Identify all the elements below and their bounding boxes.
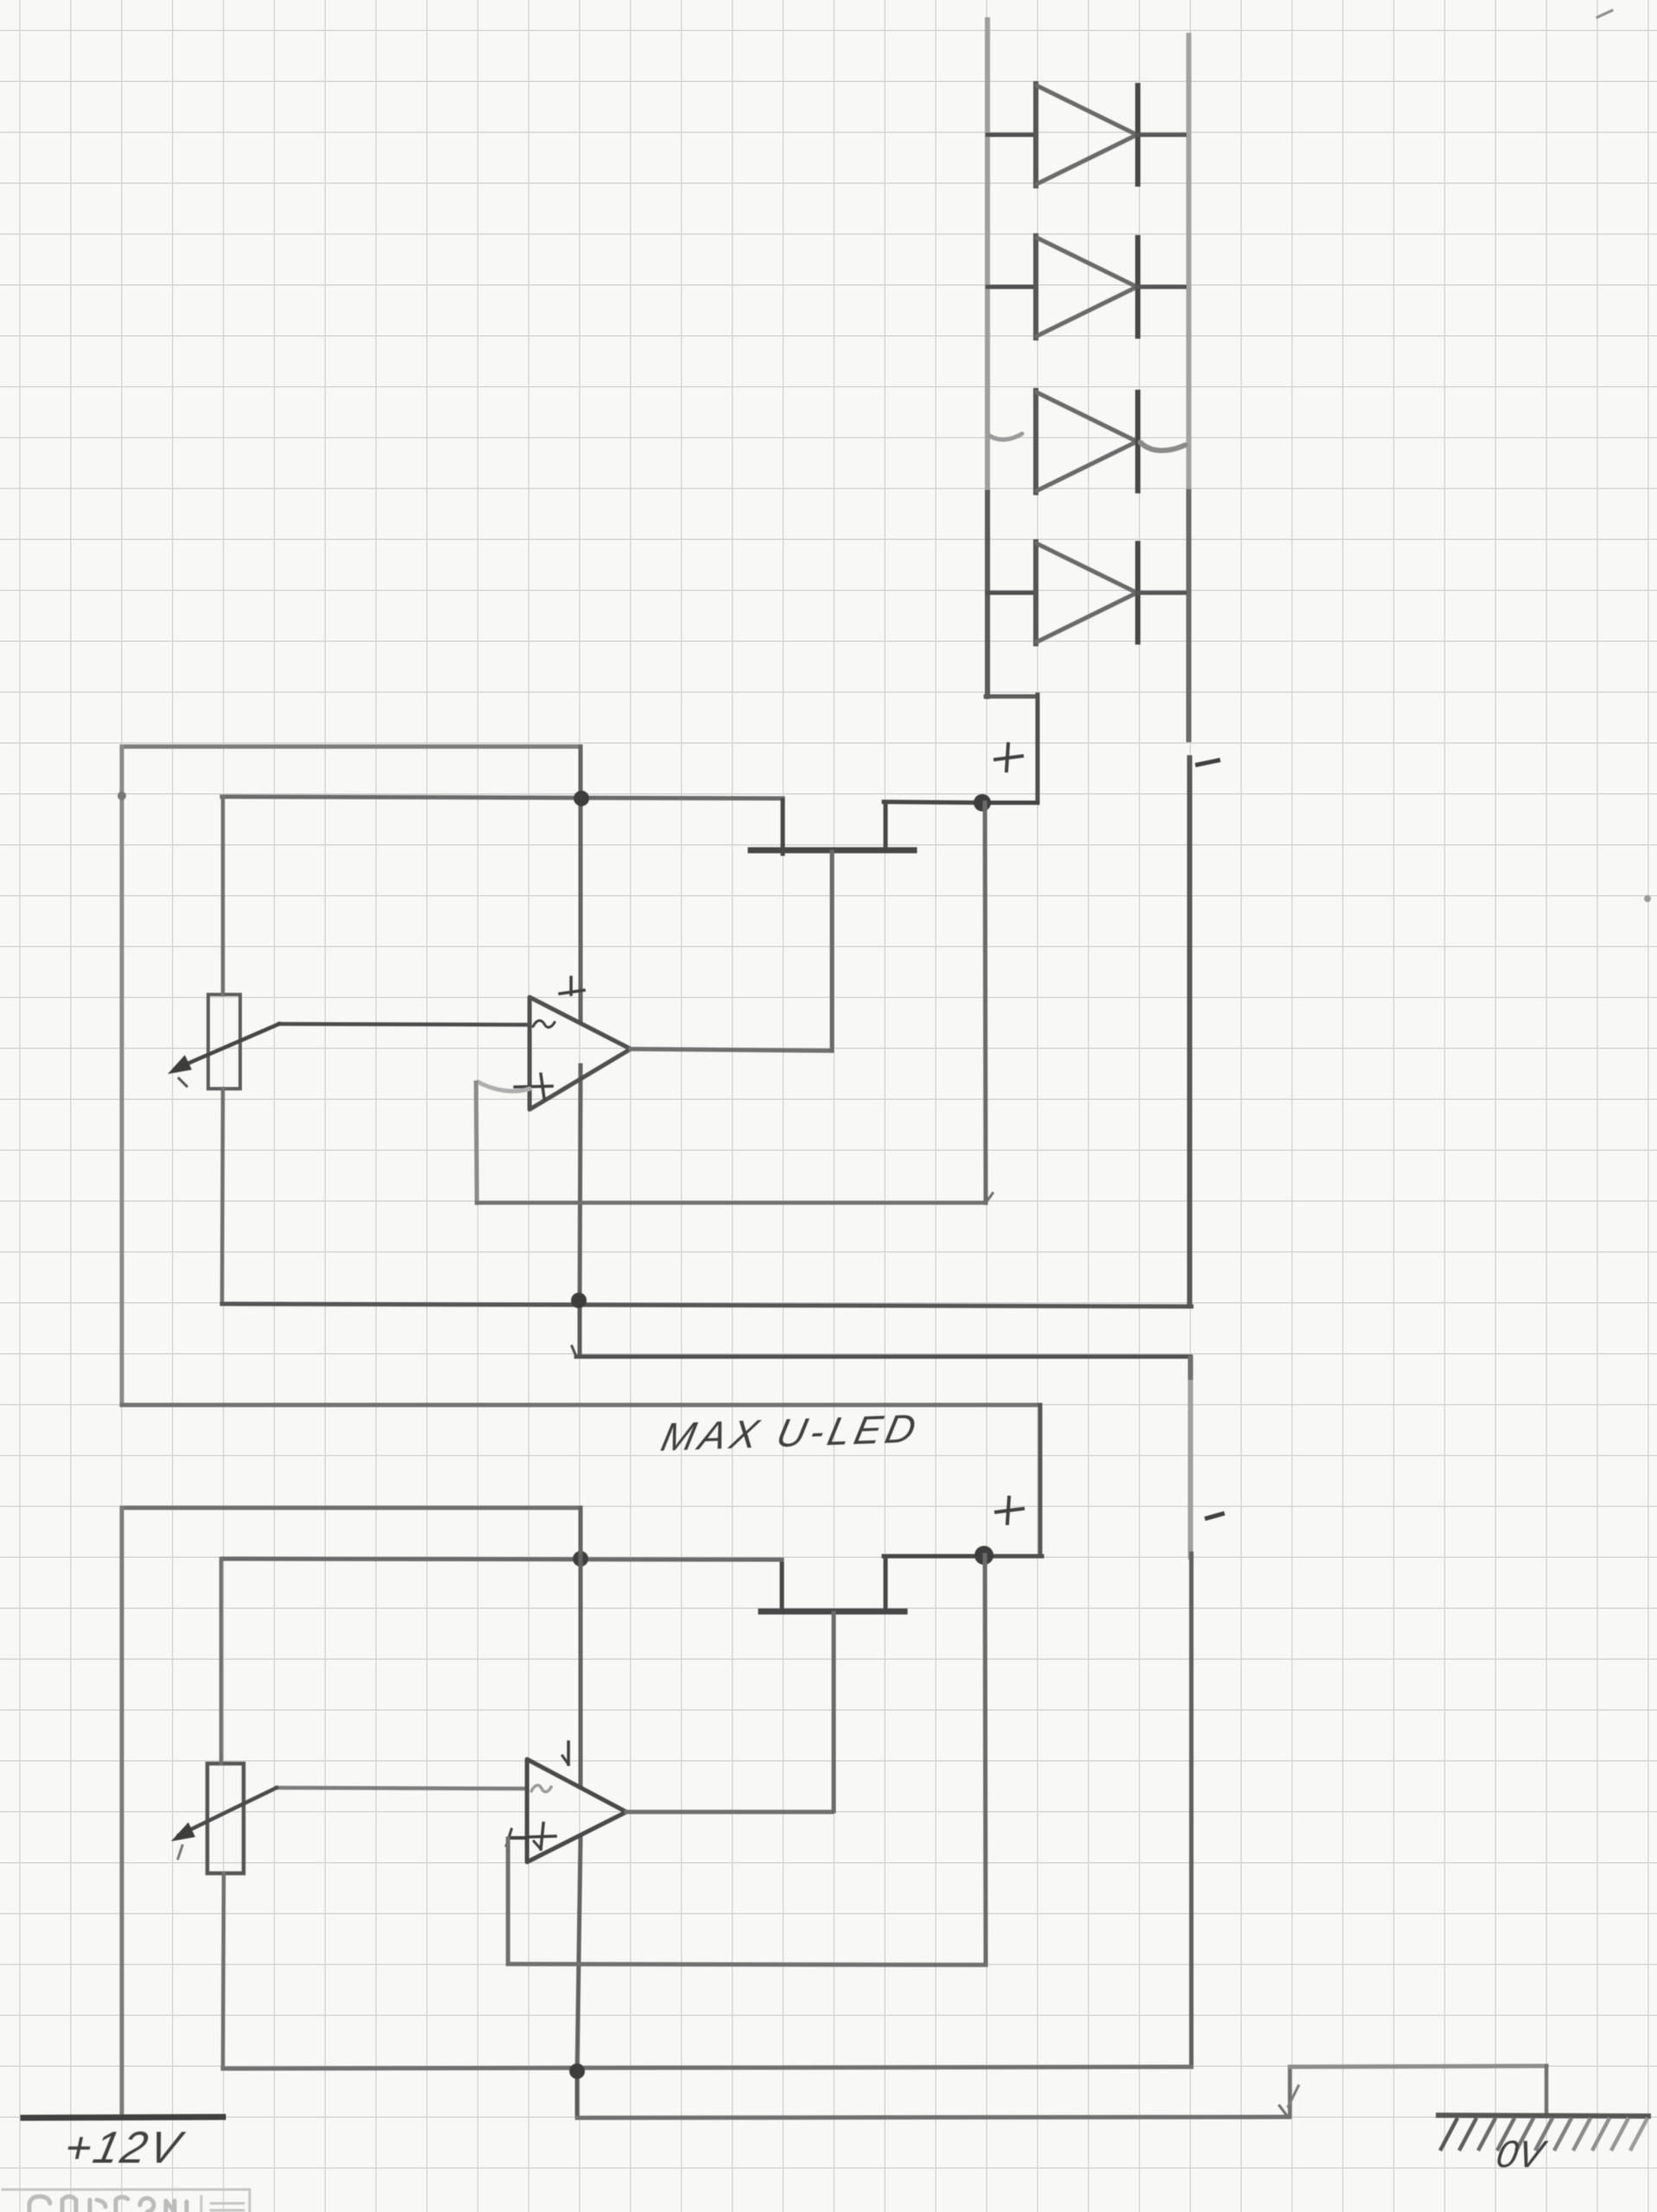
wire: upper +12V top rail <box>122 745 581 749</box>
node: lower bottom junction <box>569 2063 585 2079</box>
ground: step and 0V bar <box>1288 2066 1648 2149</box>
label: + (LED supply polarity) <box>995 744 1022 771</box>
transistor Q1 (MOSFET) <box>751 800 981 1051</box>
wire: LED anode rail (left, +) <box>985 20 1038 803</box>
wire: LED cathode rail (right, -) <box>1189 35 1190 1307</box>
wire: upper gate feed wire <box>222 797 783 798</box>
stamp (faint, cut off at page bottom) <box>3 2190 250 2212</box>
svg-text:+12V: +12V <box>60 2123 188 2173</box>
label: - (upper polarity mark) <box>1197 760 1218 765</box>
op-amp U2 <box>527 1742 626 1862</box>
node: lower supply junction <box>573 1551 588 1567</box>
svg-text:MAX U-LED: MAX U-LED <box>657 1406 924 1459</box>
label: - (lower polarity mark) <box>1207 1514 1222 1518</box>
op-amp U1 <box>515 977 631 1109</box>
wire: U2 non-inverting feedback <box>506 1829 986 1965</box>
wire: upper left supply rail <box>120 747 124 1405</box>
wire: Q1 drain sense line down <box>985 803 986 1203</box>
wire: upper lower rail (LED- return) <box>222 1304 1191 1306</box>
node: upper supply junction <box>574 791 589 806</box>
wire: upper bottom wire to lower LED+ connector <box>122 1403 1040 1408</box>
wire: Q2 drain sense line down <box>985 1555 986 1965</box>
wire: lower left supply rail <box>120 1508 124 2117</box>
wire: link to lower circuit return <box>572 1346 1190 1357</box>
diode D4 <box>987 542 1184 644</box>
node: small tick on left rail <box>117 791 126 800</box>
wire: lower bottom return wire <box>223 2067 1191 2069</box>
transistor Q2 (MOSFET) <box>761 1556 1042 1811</box>
wire: lower op-amp supply vertical <box>577 1508 581 2118</box>
wire: vertical to lower MOSFET drain node <box>1038 1405 1043 1556</box>
diode D1 <box>987 84 1184 186</box>
diode D2 <box>987 236 1184 338</box>
node: upper lower-rail junction <box>571 1293 587 1308</box>
diode D3 <box>989 391 1185 493</box>
node: Q1 drain / LED+ junction <box>974 794 991 811</box>
wire: lower gate feed wire <box>222 1559 782 1560</box>
wire: U1 output to MOSFET source <box>631 1049 830 1051</box>
wire: U2 output to MOSFET source <box>626 1810 832 1815</box>
wire: bottom wire to ground step <box>577 2106 1289 2118</box>
potentiometer R1 <box>208 797 240 1300</box>
stray speck (right edge) <box>1644 895 1651 902</box>
power: +12V supply bar <box>23 2117 223 2118</box>
stray pencil dash (top right corner) <box>1597 10 1612 17</box>
wire: R2 wiper to op-amp inverting input <box>171 1788 527 1859</box>
wire: U1 non-inverting feedback <box>476 1082 993 1203</box>
wire: R1 wiper to op-amp inverting input <box>168 1024 528 1086</box>
wire: lower return rail vertical <box>1190 1358 1191 2067</box>
wire: upper op-amp supply vertical <box>580 747 581 1357</box>
potentiometer R2 <box>207 1559 244 2069</box>
node: Q2 drain / lower connector junction <box>975 1546 994 1565</box>
wire: lower +12V top rail <box>122 1506 581 1510</box>
label: + (lower connector polarity) <box>996 1497 1023 1523</box>
